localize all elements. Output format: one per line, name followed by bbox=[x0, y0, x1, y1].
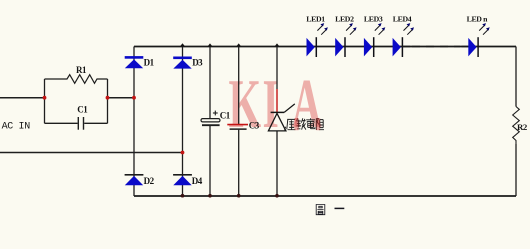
svg-text:LED1: LED1 bbox=[306, 15, 325, 24]
resistor R1 bbox=[45, 75, 108, 84]
junction dot top rail at D3 bbox=[180, 43, 186, 47]
LED n bbox=[468, 23, 489, 57]
svg-text:D4: D4 bbox=[192, 176, 203, 186]
junction dot bottom rail at C1 bbox=[208, 194, 212, 198]
junction dot top rail at C1 bbox=[207, 43, 213, 47]
svg-text:LED2: LED2 bbox=[335, 15, 354, 24]
diode D1 bbox=[125, 56, 144, 68]
wire: right vertical bottom bbox=[515, 144, 517, 196]
wire: varistor branch vertical (black top) bbox=[276, 47, 278, 90]
svg-text:C3: C3 bbox=[249, 120, 260, 130]
diode D3 bbox=[173, 57, 192, 69]
junction dot bottom rail at D4 bbox=[181, 194, 185, 198]
一 bbox=[335, 207, 345, 209]
阻 bbox=[316, 119, 324, 130]
svg-text:D1: D1 bbox=[144, 58, 155, 68]
capacitor C1 (electrolytic) bbox=[201, 119, 220, 122]
wire: bridge left vertical bbox=[133, 47, 135, 197]
wire: RC loop left vertical bbox=[44, 79, 46, 123]
電 bbox=[306, 118, 315, 128]
wire: top rail bbox=[134, 46, 516, 48]
LED1 bbox=[307, 23, 328, 57]
svg-text:D3: D3 bbox=[192, 58, 203, 68]
svg-text:D2: D2 bbox=[144, 176, 155, 186]
wire: C1 branch vertical bbox=[209, 47, 211, 119]
capacitor C3 bbox=[227, 124, 248, 126]
敏 bbox=[297, 118, 306, 129]
svg-text:AC IN: AC IN bbox=[2, 122, 31, 133]
svg-text:C1: C1 bbox=[77, 105, 88, 115]
junction dot (upper AC / RC loop right) bbox=[106, 96, 110, 100]
svg-text:R1: R1 bbox=[76, 65, 87, 75]
svg-text:R2: R2 bbox=[517, 122, 528, 132]
watermark KIA bbox=[229, 66, 323, 142]
wire: RC loop right vertical bbox=[107, 79, 109, 123]
LED2 bbox=[335, 23, 356, 57]
wire: right vertical top bbox=[515, 47, 517, 107]
resistor R2 bbox=[513, 107, 520, 145]
junction dot (upper AC / RC loop left) bbox=[43, 96, 47, 100]
wire: lower AC lead bbox=[0, 152, 183, 154]
wire: upper AC lead right bbox=[108, 97, 135, 99]
label 壓敏電阻 (varistor) bbox=[285, 118, 324, 130]
svg-text:LED n: LED n bbox=[467, 15, 489, 24]
caption 圖 一 bbox=[316, 205, 344, 215]
wire: varistor branch vertical (red segment) bbox=[276, 89, 278, 112]
wire: C3 branch vertical bbox=[238, 47, 240, 125]
diode D4 bbox=[173, 174, 192, 185]
junction dot bottom rail at varistor bbox=[275, 194, 279, 198]
wire: dashed segment bbox=[402, 46, 410, 48]
svg-text:C1: C1 bbox=[220, 110, 231, 120]
watermark leg tint over label bbox=[294, 118, 298, 130]
wire: bridge right vertical bbox=[182, 47, 184, 197]
junction node (lower AC into bridge) bbox=[181, 151, 185, 155]
junction dot top rail at varistor bbox=[274, 43, 280, 47]
junction dot top rail at C3 bbox=[236, 43, 242, 47]
壓 bbox=[285, 119, 296, 130]
wire: upper AC lead left bbox=[0, 97, 45, 99]
svg-text:LED3: LED3 bbox=[364, 15, 383, 24]
svg-text:LED4: LED4 bbox=[393, 15, 412, 24]
junction dot bottom rail at C3 bbox=[237, 194, 241, 198]
svg-text:K: K bbox=[229, 66, 262, 142]
varistor RV bbox=[271, 111, 285, 113]
圖 bbox=[316, 205, 325, 215]
LED4 bbox=[393, 23, 414, 57]
wire: varistor branch vertical (below) bbox=[276, 131, 278, 196]
diode D2 bbox=[125, 174, 144, 185]
capacitor C1 (film, in RC snubber) bbox=[45, 122, 78, 124]
svg-text:A: A bbox=[292, 66, 323, 142]
junction node (upper AC into bridge) bbox=[132, 96, 136, 100]
LED3 bbox=[364, 23, 385, 57]
wire: bottom rail bbox=[134, 195, 516, 197]
